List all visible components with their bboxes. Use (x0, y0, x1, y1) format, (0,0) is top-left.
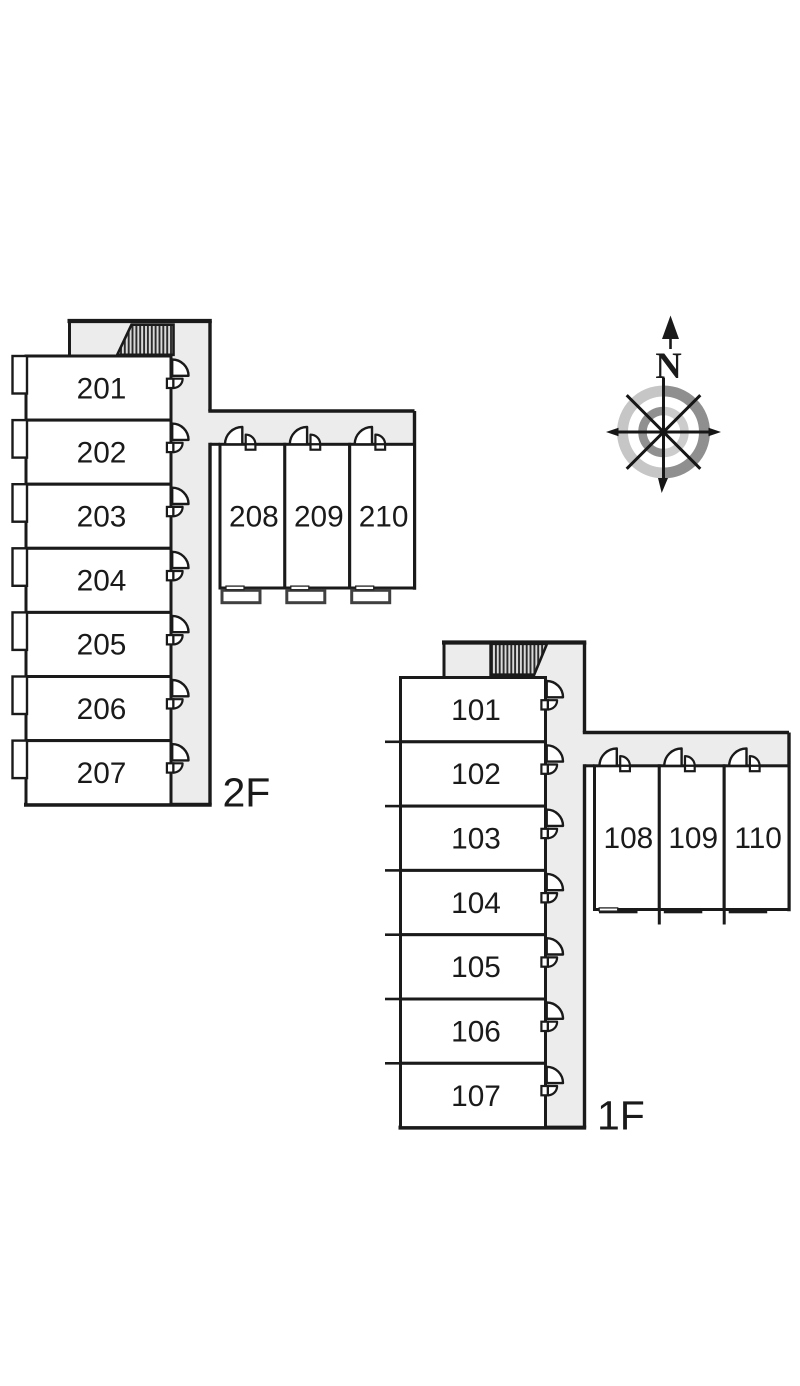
svg-text:206: 206 (77, 693, 127, 726)
svg-text:205: 205 (77, 629, 127, 662)
svg-text:201: 201 (77, 372, 127, 405)
svg-text:106: 106 (451, 1016, 501, 1049)
svg-text:101: 101 (451, 694, 501, 727)
svg-text:109: 109 (668, 822, 718, 855)
svg-text:110: 110 (734, 822, 782, 855)
svg-text:207: 207 (77, 757, 127, 790)
svg-text:204: 204 (77, 565, 127, 598)
svg-text:104: 104 (451, 887, 501, 920)
svg-text:2F: 2F (223, 770, 271, 816)
svg-text:103: 103 (451, 823, 501, 856)
svg-text:108: 108 (604, 822, 654, 855)
svg-text:1F: 1F (597, 1093, 645, 1139)
svg-text:203: 203 (77, 501, 127, 534)
svg-text:208: 208 (229, 501, 279, 534)
svg-text:107: 107 (451, 1080, 501, 1113)
svg-text:102: 102 (451, 758, 501, 791)
svg-text:209: 209 (294, 501, 344, 534)
svg-text:210: 210 (359, 501, 409, 534)
svg-text:202: 202 (77, 437, 127, 470)
svg-text:N: N (655, 345, 681, 386)
svg-text:105: 105 (451, 951, 501, 984)
